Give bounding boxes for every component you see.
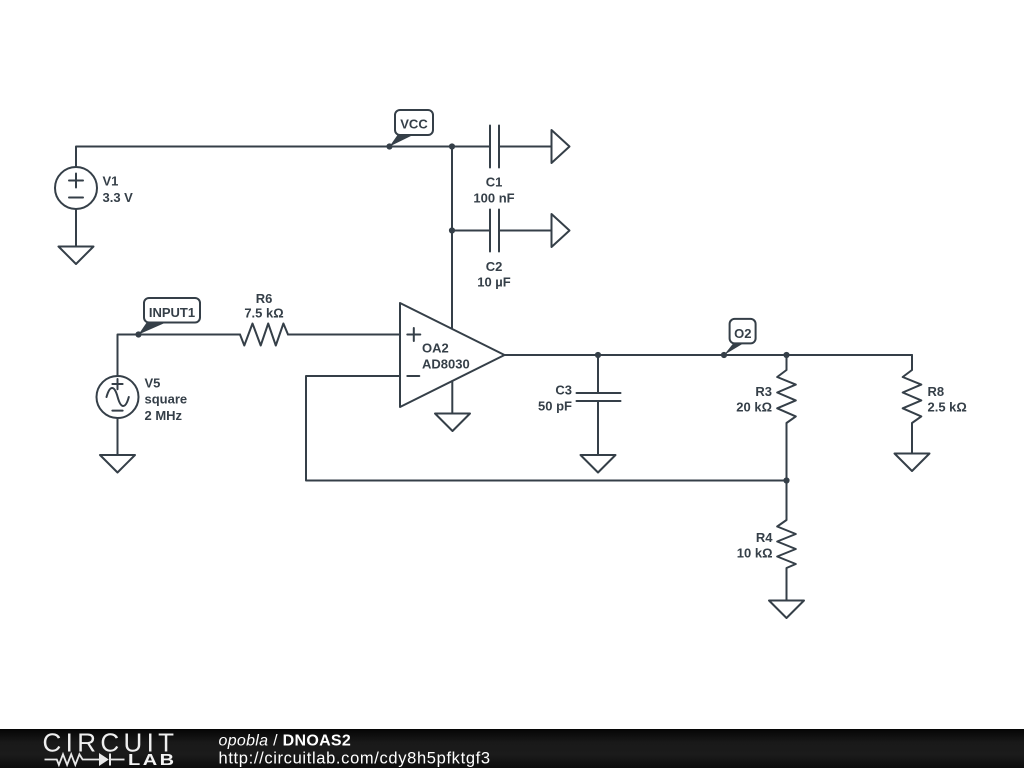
wire INPUT1 to R6: [118, 335, 241, 377]
label C2: [477, 259, 511, 290]
label V1: [103, 174, 134, 206]
svg-text:R4: R4: [756, 530, 773, 545]
svg-text:50 pF: 50 pF: [538, 399, 572, 414]
label R6: [244, 291, 283, 321]
svg-text:INPUT1: INPUT1: [149, 305, 195, 320]
resistor R6: [240, 324, 288, 346]
node INPUT1 junction: [135, 331, 141, 337]
ground (V5): [100, 455, 135, 473]
capacitor C1: [452, 126, 552, 168]
svg-text:square: square: [145, 392, 188, 407]
ground (C3): [581, 455, 616, 473]
label R3: [736, 384, 772, 415]
svg-text:R6: R6: [256, 291, 273, 306]
ground (V1): [59, 247, 94, 265]
node R3 top junction: [783, 352, 789, 358]
node R3/R4 junction: [783, 477, 789, 483]
wire VCC column: [451, 147, 453, 330]
svg-text:3.3 V: 3.3 V: [103, 190, 134, 205]
svg-text:V5: V5: [145, 376, 161, 391]
svg-text:2.5 kΩ: 2.5 kΩ: [928, 400, 967, 415]
logo diode glyph: [99, 753, 125, 766]
label R8: [928, 384, 967, 415]
label R4: [737, 530, 773, 561]
ground (R8): [895, 454, 930, 472]
output pin arrow (C2): [552, 214, 570, 247]
op-amp OA2: [400, 303, 505, 407]
label OA2: [422, 341, 470, 372]
svg-text:10 µF: 10 µF: [477, 275, 511, 290]
wire feedback loop: [306, 376, 787, 481]
label V5: [145, 376, 188, 423]
resistor R3: [777, 355, 796, 481]
footer banner: [0, 729, 1024, 768]
svg-text:http://circuitlab.com/cdy8h5pf: http://circuitlab.com/cdy8h5pfktgf3: [219, 749, 491, 767]
logo resistor glyph: [45, 754, 100, 765]
wire VCC top rail: [76, 147, 452, 168]
net flag O2: [724, 319, 756, 355]
svg-text:VCC: VCC: [400, 117, 428, 132]
label C1: [473, 175, 514, 206]
wire op-amp negative power pin: [451, 381, 453, 414]
node O2 junction: [721, 352, 727, 358]
svg-text:C3: C3: [555, 383, 572, 398]
svg-text:R3: R3: [755, 384, 772, 399]
wire R6 to op-amp: [288, 334, 400, 336]
output pin arrow (C1): [552, 130, 570, 163]
svg-text:C1: C1: [486, 175, 503, 190]
resistor R8: [903, 355, 922, 454]
svg-text:2 MHz: 2 MHz: [145, 408, 183, 423]
node C3 junction: [595, 352, 601, 358]
capacitor C2: [452, 210, 552, 252]
net flag INPUT1: [139, 298, 201, 335]
svg-text:10 kΩ: 10 kΩ: [737, 546, 773, 561]
svg-text:100 nF: 100 nF: [473, 191, 514, 206]
svg-text:V1: V1: [103, 174, 119, 189]
voltage source V5: [97, 376, 139, 455]
wire op-amp output rail: [505, 354, 913, 356]
svg-text:LAB: LAB: [128, 751, 177, 768]
svg-text:AD8030: AD8030: [422, 356, 470, 371]
svg-text:opobla / DNOAS2: opobla / DNOAS2: [219, 732, 352, 749]
svg-text:7.5 kΩ: 7.5 kΩ: [244, 306, 283, 321]
svg-text:R8: R8: [928, 384, 945, 399]
svg-text:O2: O2: [734, 326, 751, 341]
node C1 junction: [449, 143, 455, 149]
ground (R4): [769, 601, 804, 619]
svg-text:20 kΩ: 20 kΩ: [736, 400, 772, 415]
label C3: [538, 383, 572, 414]
svg-text:C2: C2: [486, 259, 503, 274]
ground (op-amp): [435, 414, 470, 432]
node C2 junction: [449, 227, 455, 233]
resistor R4: [777, 481, 796, 601]
capacitor C3: [577, 355, 621, 455]
voltage source V1: [55, 167, 97, 247]
node VCC junction: [386, 143, 392, 149]
svg-text:OA2: OA2: [422, 341, 449, 356]
net flag VCC: [390, 110, 434, 147]
